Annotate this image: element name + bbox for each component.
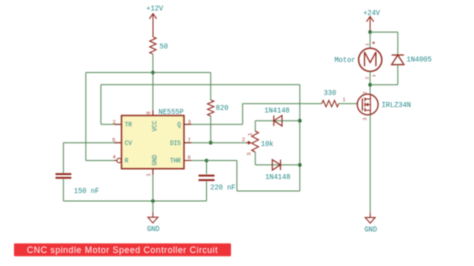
svg-text:2: 2 (242, 136, 245, 143)
svg-text:820: 820 (216, 105, 229, 113)
svg-text:10k: 10k (261, 141, 274, 149)
svg-text:8: 8 (145, 111, 152, 114)
svg-text:Q: Q (177, 122, 181, 129)
svg-text:3: 3 (188, 119, 191, 126)
svg-text:NE555P: NE555P (159, 109, 184, 117)
svg-text:2: 2 (113, 119, 116, 126)
svg-text:3: 3 (363, 117, 369, 120)
svg-text:3: 3 (246, 152, 253, 155)
svg-text:GND: GND (152, 154, 159, 165)
svg-text:VCC: VCC (152, 120, 159, 131)
svg-text:6: 6 (188, 154, 191, 161)
svg-text:CV: CV (125, 140, 133, 147)
svg-text:TR: TR (125, 122, 133, 129)
svg-text:DIS: DIS (170, 140, 181, 147)
svg-text:50: 50 (160, 44, 168, 52)
svg-text:2: 2 (364, 76, 370, 79)
svg-text:1N4005: 1N4005 (407, 57, 432, 65)
svg-text:4: 4 (113, 154, 117, 161)
svg-text:1N4148: 1N4148 (265, 174, 290, 182)
svg-text:R: R (125, 158, 129, 165)
svg-text:150 nF: 150 nF (74, 188, 99, 196)
svg-text:GND: GND (147, 226, 160, 234)
svg-text:1: 1 (342, 97, 345, 103)
svg-text:1: 1 (145, 172, 152, 176)
svg-text:5: 5 (112, 136, 115, 143)
svg-text:220 nF: 220 nF (210, 185, 235, 193)
svg-text:330: 330 (324, 90, 337, 98)
svg-text:+12V: +12V (146, 6, 164, 14)
svg-text:Motor: Motor (334, 57, 355, 65)
svg-text:IRLZ34N: IRLZ34N (382, 102, 411, 110)
svg-text:7: 7 (188, 136, 191, 143)
svg-text:CNC spindle Motor Speed Contro: CNC spindle Motor Speed Controller Circu… (27, 245, 218, 255)
svg-text:1N4148: 1N4148 (264, 108, 289, 116)
svg-text:1: 1 (246, 132, 253, 136)
svg-text:1: 1 (364, 43, 370, 46)
svg-text:+24V: +24V (363, 10, 381, 18)
svg-text:GND: GND (364, 226, 377, 234)
svg-text:THR: THR (170, 158, 181, 165)
